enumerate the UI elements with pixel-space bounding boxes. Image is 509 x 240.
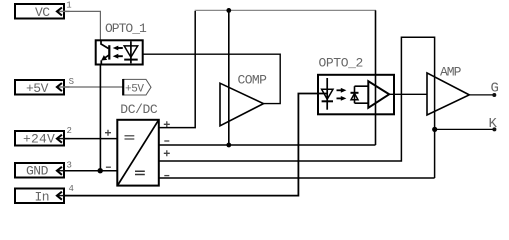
svg-text:+5V: +5V [26, 81, 49, 96]
terminal K [492, 127, 496, 131]
OPTO_1 LED [124, 41, 138, 63]
net label +5V flag [123, 79, 151, 95]
wire AMP output to G terminal [469, 94, 494, 96]
node top rail junction [226, 8, 231, 13]
svg-text:+24V: +24V [23, 132, 55, 147]
OPTO_2 photodiode [351, 86, 369, 103]
opto-isolator OPTO_2 box [318, 75, 394, 115]
opto-isolator OPTO_1 box [96, 40, 143, 64]
wire OPTO_1 output to COMP output node [143, 54, 280, 103]
DC/DC + input label [105, 130, 111, 136]
arrow pin VC [57, 8, 70, 16]
OPTO_2 output amplifier triangle [368, 81, 389, 108]
wire In to OPTO_2 LED [64, 94, 327, 196]
wire K line [435, 128, 495, 130]
wire OPTO_2 output to AMP [389, 93, 427, 95]
wire DC/DC out2 [159, 144, 376, 146]
svg-text:GND: GND [26, 164, 49, 179]
wire DC/DC out4 [159, 177, 435, 179]
DC/DC -out4 label [164, 175, 169, 177]
arrow pin In [57, 192, 70, 200]
node out2 junction [226, 143, 231, 148]
svg-text:3: 3 [67, 161, 72, 171]
svg-text:1: 1 [66, 1, 71, 11]
connector box +5V [15, 80, 64, 96]
terminal G [492, 93, 496, 97]
comparator COMP triangle [220, 83, 264, 126]
amplifier AMP triangle [427, 73, 469, 115]
wire OPTO_1 emitter to GND [99, 65, 101, 171]
connector box In [15, 189, 64, 205]
DC/DC - input label [106, 166, 111, 168]
label DC/DC [120, 102, 158, 117]
svg-text:AMP: AMP [440, 65, 462, 80]
DC/DC -out2 label [164, 140, 169, 142]
svg-text:K: K [489, 116, 498, 132]
svg-text:In: In [35, 190, 50, 205]
svg-text:OPTO_2: OPTO_2 [319, 56, 363, 71]
wire GND to DC/DC - input [64, 170, 118, 172]
wire riser to OPTO_2 crossing [375, 10, 377, 145]
OPTO_1 phototransistor [101, 40, 109, 64]
wire VC to OPTO_1 collector [64, 11, 100, 40]
connector box +24V [15, 131, 64, 147]
wire DC/DC out1 [159, 11, 195, 128]
connector box VC [15, 4, 64, 20]
DC/DC converter box [117, 120, 159, 186]
arrow pin GND [57, 167, 70, 175]
DC/DC +out1 label [164, 121, 170, 127]
svg-text:DC/DC: DC/DC [120, 102, 158, 117]
OPTO_2 LED [322, 78, 333, 110]
wire COMP vertical through [228, 10, 230, 145]
svg-text:G: G [491, 81, 499, 97]
svg-text:2: 2 [67, 126, 72, 136]
wire DC/DC out3 up-over to K riser [159, 37, 435, 178]
svg-text:COMP: COMP [238, 73, 268, 88]
svg-text:S: S [69, 77, 74, 87]
svg-text:OPTO_1: OPTO_1 [105, 21, 147, 36]
arrow pin +24V [57, 135, 70, 143]
svg-text:4: 4 [69, 184, 74, 194]
wire +24V to DC/DC + input [64, 138, 117, 140]
DC/DC +out3 label [164, 150, 170, 156]
wire top rail [195, 9, 376, 11]
arrow pin +5V [57, 83, 70, 91]
svg-text:VC: VC [35, 5, 50, 20]
OPTO_1 light arrows [113, 46, 123, 59]
svg-text:+5V: +5V [125, 83, 144, 95]
node GND junction [98, 168, 103, 173]
connector box GND [15, 163, 64, 179]
wire +5V to net label [64, 86, 123, 88]
OPTO_2 light arrows [337, 88, 347, 101]
node K junction [432, 127, 437, 132]
